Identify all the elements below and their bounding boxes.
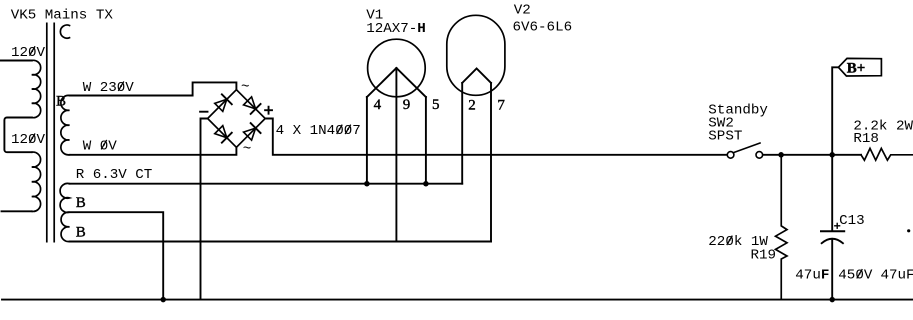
- switch SW2 contact left: [727, 152, 734, 159]
- svg-text:450V: 450V: [838, 268, 873, 284]
- svg-text:12AX7-H: 12AX7-H: [366, 21, 426, 37]
- junction V1 pin5 / 6.3V: [423, 181, 429, 187]
- transformer core: [47, 23, 54, 241]
- label + (bridge plus): [265, 109, 272, 111]
- svg-text:VK5 Mains TX: VK5 Mains TX: [11, 8, 114, 24]
- resistor R19 220k 1W vertical: [776, 155, 788, 300]
- bridge rectifier diamond: [208, 90, 266, 148]
- svg-text:SPST: SPST: [708, 128, 742, 144]
- svg-text:9: 9: [403, 97, 411, 113]
- ground rail: [2, 299, 913, 301]
- secondary winding S1 230V: [61, 95, 70, 154]
- diode D4 (bottom to right): [244, 128, 256, 140]
- slashed zero marks (EAGLE font style): [30, 47, 862, 278]
- svg-text:4: 4: [374, 97, 382, 113]
- primary winding P2 120V: [32, 152, 41, 211]
- tube V1 envelope: [368, 39, 426, 97]
- junction C13/ground: [829, 297, 835, 303]
- diode D2 (left to bottom): [215, 126, 227, 138]
- svg-text:C13: C13: [839, 213, 865, 229]
- svg-text:W 0V: W 0V: [83, 139, 118, 155]
- svg-text:6V6-6L6: 6V6-6L6: [513, 19, 573, 35]
- B+ flag: [838, 58, 881, 76]
- svg-text:7: 7: [497, 98, 505, 114]
- V2 pin 2: [461, 83, 463, 184]
- V1 heater filament: [367, 68, 426, 97]
- wire primary bottom to left edge: [2, 210, 32, 212]
- label - (bridge minus): [200, 111, 207, 113]
- junction CT-ground: [160, 297, 166, 303]
- switch SW2 blade: [734, 143, 761, 153]
- tube V2 envelope: [447, 15, 505, 95]
- svg-text:120V: 120V: [11, 45, 46, 61]
- wire heater CT to ground: [70, 212, 164, 299]
- svg-text:B: B: [56, 94, 66, 110]
- wire primary top to left edge: [0, 60, 32, 62]
- svg-text:B: B: [76, 195, 86, 211]
- diode D3 (top to right): [244, 97, 256, 109]
- svg-text:W 230V: W 230V: [83, 80, 135, 96]
- svg-text:R18: R18: [853, 131, 879, 147]
- capacitor C13 plus sign: [835, 223, 840, 228]
- svg-text:R 6.3V CT: R 6.3V CT: [76, 167, 153, 183]
- svg-text:~: ~: [241, 80, 250, 96]
- V2 pin 7: [490, 83, 492, 242]
- svg-text:5: 5: [432, 97, 440, 113]
- primary winding P1 120V: [32, 60, 41, 117]
- wire W 230V to bridge AC top: [70, 82, 237, 95]
- junction B+/R18/C13: [829, 152, 835, 158]
- svg-text:R19: R19: [751, 247, 777, 263]
- wire switch to R18 junction: [763, 154, 861, 156]
- junction switch/R19: [778, 152, 784, 158]
- capacitor C13 top lead: [831, 155, 833, 231]
- V1 pin 5: [425, 97, 427, 184]
- svg-text:47uF: 47uF: [795, 268, 829, 284]
- svg-text:V2: V2: [514, 2, 531, 18]
- svg-text:B+: B+: [847, 61, 866, 77]
- capacitor C14 plus dot (clipped at edge): [907, 229, 910, 232]
- wire bridge plus to B+ rail: [265, 119, 726, 155]
- svg-text:B: B: [76, 225, 86, 241]
- wire junction up to B+ flag: [832, 67, 838, 155]
- wire primary interconnect notch: [4, 118, 31, 153]
- wire W 0V to bridge AC bottom: [70, 147, 237, 155]
- svg-text:120V: 120V: [11, 132, 46, 148]
- svg-text:~: ~: [243, 142, 252, 158]
- V2 heater filament: [462, 69, 491, 83]
- diode D1 (left to top): [215, 99, 227, 111]
- wire 6.3V to tube heaters: [70, 183, 463, 185]
- capacitor C13 curved plate: [822, 239, 843, 243]
- wire bridge minus to ground: [201, 119, 208, 300]
- wire heater bottom to V1 pin 9 and V2 pin 7: [70, 241, 492, 243]
- svg-text:2: 2: [468, 98, 476, 114]
- resistor R18 2.2k 2W horizontal: [861, 148, 913, 160]
- transformer arc marker: [60, 25, 69, 38]
- capacitor C13 plus plate: [821, 230, 844, 232]
- V1 pin 9: [395, 68, 397, 242]
- secondary heater winding R 6.3V CT: [60, 183, 69, 241]
- junction V1 pin4 / 6.3V: [364, 181, 370, 187]
- capacitor C13 bottom lead: [831, 239, 833, 300]
- svg-text:4 X 1N4007: 4 X 1N4007: [276, 123, 361, 139]
- switch SW2 contact right: [756, 152, 763, 159]
- svg-text:47uF: 47uF: [881, 268, 913, 284]
- V1 pin 4: [366, 97, 368, 184]
